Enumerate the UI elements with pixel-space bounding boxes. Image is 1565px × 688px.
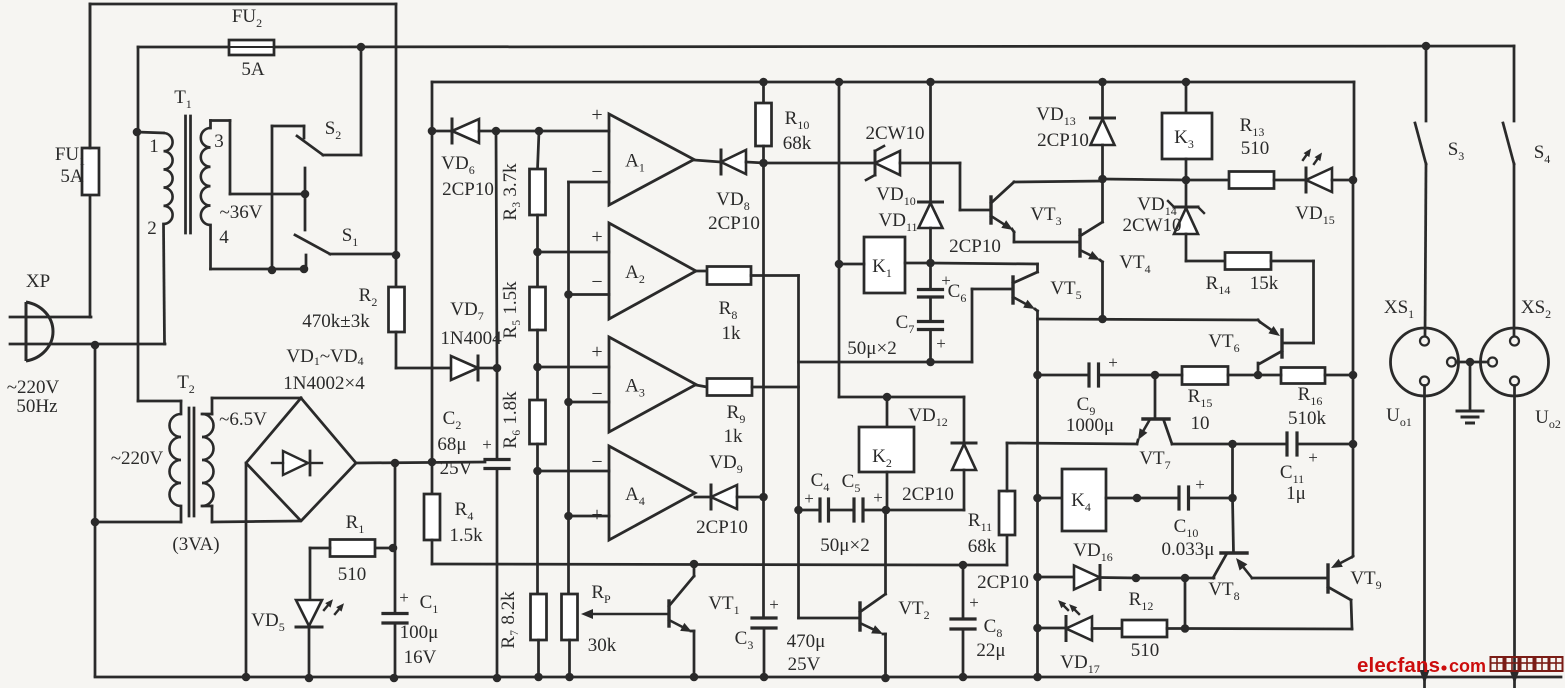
svg-text:−: − (591, 271, 602, 293)
capacitor C1 (383, 548, 407, 678)
plug XP (10, 302, 165, 361)
transformer T1 primary winding (1-2) (137, 132, 173, 344)
svg-text:+: + (804, 489, 814, 508)
label C6C7 50ux2 (847, 338, 896, 359)
watermark chinese characters (1490, 656, 1563, 671)
wire bridge negative to rail (245, 463, 248, 677)
label VD7 1N4004 (440, 299, 502, 349)
wire comparator bottom rail (432, 540, 963, 565)
label T2 (177, 372, 195, 396)
svg-text:~6.5V: ~6.5V (219, 409, 267, 430)
node K4-C10 junction (1133, 494, 1142, 503)
relay K4 (1038, 469, 1107, 531)
label FU1 5A (55, 144, 85, 187)
node K2 top junction (883, 393, 892, 402)
node VD17 left junction (1033, 624, 1042, 633)
diode VD6 (432, 119, 496, 143)
node C3 rail junction (760, 673, 769, 682)
svg-text:com: com (1449, 656, 1486, 676)
wire R15-R16 (1228, 374, 1258, 377)
svg-text:+: + (1308, 448, 1318, 467)
label VD12 2CP10 (902, 484, 954, 505)
label R7 8.2k (498, 591, 519, 649)
svg-text:2CP10: 2CP10 (708, 213, 760, 234)
transistor VT5 (931, 263, 1038, 375)
svg-text:68k: 68k (783, 133, 812, 154)
svg-text:~220V: ~220V (7, 377, 60, 398)
wire right bus x1353 (1353, 82, 1354, 556)
node R11-C8 junction (959, 561, 968, 570)
svg-text:2CP10: 2CP10 (949, 236, 1001, 257)
transformer T2 secondary winding (202, 398, 301, 522)
wire XS2 output down (1510, 386, 1520, 688)
node C2 rail junction (493, 674, 502, 683)
svg-text:+: + (482, 435, 492, 454)
wire to VT9 collector (1185, 627, 1352, 630)
diode VD8 (721, 150, 764, 174)
node bridge-VD6line junction (428, 458, 437, 467)
node VT2 emitter rail junction (881, 674, 890, 683)
svg-text:elecfans: elecfans (1357, 654, 1440, 677)
wire FU2 to T1 (137, 47, 140, 132)
op-amp A4 (591, 446, 695, 540)
relay K1 (839, 237, 931, 293)
node VT8 base mid junction (1228, 494, 1237, 503)
label R16 510k (1288, 384, 1327, 429)
label VD12 (908, 405, 947, 429)
wire VD6 vertical (431, 82, 434, 494)
transistor VT8 (1213, 553, 1328, 578)
node R5-R6 junction (533, 363, 542, 372)
node VD7 output junction (493, 364, 502, 373)
wire A1 plus input (496, 130, 609, 133)
label C10 0.033u (1162, 475, 1215, 560)
wire K4 right (1106, 497, 1137, 500)
label VD5 (251, 610, 284, 634)
label 2CW10 (865, 123, 924, 144)
wire emitter bus y319 (1038, 319, 1259, 320)
svg-text:1N4004: 1N4004 (440, 328, 502, 349)
label R12 510 (1129, 589, 1160, 661)
node bridge negative rail junction (242, 673, 251, 682)
label VD9 2CP10 (696, 452, 748, 538)
diode VD7 (432, 356, 497, 380)
capacitor C10 (1137, 487, 1233, 509)
node R16 right junction (1349, 371, 1358, 380)
wire socket link (1456, 358, 1488, 367)
label C9 1000u (1066, 353, 1118, 436)
wire to VT8 (1185, 577, 1214, 580)
label R5 1.5k (500, 281, 521, 339)
capacitor C2 (485, 368, 509, 678)
label R2 470k±3k (302, 285, 377, 332)
svg-text:~220V: ~220V (111, 448, 164, 469)
svg-text:+: + (591, 226, 602, 248)
node VT4 emitter junction (1098, 315, 1107, 324)
resistor R11 (963, 443, 1015, 565)
resistor R3 (530, 131, 546, 287)
svg-text:+: + (591, 504, 602, 526)
LED VD5 (296, 599, 344, 678)
wire A2 minus input (569, 293, 610, 296)
label VD11 2CP10 (949, 236, 1001, 257)
label VT1 (708, 593, 739, 617)
node VT1 emitter rail junction (690, 673, 699, 682)
svg-text:5A: 5A (60, 166, 84, 187)
transistor VT2 (799, 510, 886, 678)
label R4 1.5k (449, 499, 483, 546)
wire A-output to VT5 base (799, 289, 1014, 362)
label R15 10 (1188, 386, 1213, 434)
svg-text:(3VA): (3VA) (172, 534, 219, 555)
wire R14 to VT6 base (1271, 261, 1314, 343)
svg-text:25V: 25V (440, 458, 473, 479)
wire T1 junction down to mains node (137, 132, 140, 344)
svg-text:1μ: 1μ (1286, 483, 1306, 504)
resistor R4 (424, 494, 440, 540)
label VT2 (898, 598, 929, 622)
label XP (26, 271, 50, 292)
label R8 1k (719, 298, 741, 344)
node A2 minus junction (564, 290, 573, 299)
wire C2 vertical upper (496, 131, 497, 368)
wire K2 top lead (886, 397, 889, 427)
svg-text:510: 510 (1131, 640, 1160, 661)
resistor R13 (1229, 172, 1274, 189)
node C7 bottom junction (926, 358, 935, 367)
node VD5 rail junction (305, 674, 314, 683)
label FU2 5A (232, 6, 265, 80)
node K1 left junction (835, 260, 844, 269)
resistor R6 (530, 400, 546, 594)
node C11 right junction (1349, 440, 1358, 449)
node S3 top junction (1422, 42, 1431, 51)
wire C9-R15 (1155, 374, 1182, 377)
svg-text:1N4002×4: 1N4002×4 (283, 373, 365, 394)
wire K1 left vertical upper (838, 82, 841, 264)
wire S2 left vertical (271, 126, 274, 270)
node S1-R2 junction (392, 251, 401, 260)
label VT6 (1208, 331, 1239, 355)
switch S2 (272, 47, 361, 155)
node VD9-R10line junction (759, 493, 768, 502)
svg-text:+: + (936, 334, 946, 353)
label C8 22u (969, 593, 1005, 661)
node T1 tap junction (301, 190, 310, 199)
label C1 100u 16V (399, 588, 438, 668)
wire R2 feed vertical (395, 4, 398, 255)
node RP rail junction (565, 673, 574, 682)
svg-text:50μ×2: 50μ×2 (820, 535, 869, 556)
resistor R7 (531, 594, 547, 677)
label R6 1.8k (500, 391, 521, 449)
svg-text:VD1~VD4: VD1~VD4 (286, 346, 363, 368)
label Uo2 (1535, 407, 1561, 431)
wire bottom ground rail (95, 345, 1561, 677)
svg-text:30k: 30k (588, 635, 617, 656)
diode VD9 (711, 485, 764, 509)
svg-text:2CP10: 2CP10 (977, 572, 1029, 593)
svg-text:100μ: 100μ (400, 622, 439, 643)
label VD16 (1073, 540, 1112, 564)
label Uo1 (1386, 405, 1412, 429)
label winding 4 (219, 227, 229, 248)
svg-text:2: 2 (147, 218, 157, 239)
node K2-VD12 bottom junction (882, 506, 891, 515)
svg-text:1k: 1k (722, 323, 742, 344)
label R13 510 (1240, 115, 1270, 159)
svg-text:1: 1 (149, 136, 159, 157)
svg-text:68μ: 68μ (437, 434, 466, 455)
wire XS1 output down (1420, 386, 1430, 688)
capacitor C6 (919, 263, 943, 297)
switch S1 (295, 168, 396, 269)
node K4 left junction (1033, 494, 1042, 503)
node T1 bottom junctions (268, 265, 309, 275)
wire R10 line down (762, 163, 765, 497)
svg-text:470μ: 470μ (787, 631, 826, 652)
labels VD10 VD11 (876, 184, 917, 234)
resistor R5 (530, 287, 546, 400)
wire to R1 (375, 463, 397, 552)
svg-text:470k±3k: 470k±3k (302, 311, 370, 332)
bridge rectifier VD1-VD4 (246, 398, 356, 521)
label C7 (896, 312, 946, 353)
wire A1 output (694, 160, 721, 162)
wire inner top rail (432, 81, 1354, 84)
wire K2 bottom lead (886, 472, 889, 510)
svg-text:2CP10: 2CP10 (902, 484, 954, 505)
node VD8-R10 junction (759, 159, 768, 168)
node VT8 base top junction (1228, 440, 1237, 449)
resistor R1 (330, 540, 375, 557)
label ~6.5V (219, 409, 267, 430)
svg-text:R₆ 1.8k: R₆ 1.8k (500, 391, 521, 449)
node C8 rail junction (959, 673, 968, 682)
relay K3 (1162, 82, 1212, 180)
transformer T1 secondary winding (3-4) (201, 121, 306, 270)
node VD6 left junction (428, 127, 437, 136)
svg-text:25V: 25V (788, 654, 821, 675)
capacitor C8 (951, 565, 975, 677)
label (3VA) (172, 534, 219, 555)
ground (1457, 362, 1483, 423)
wire VD16-R12 link (1184, 578, 1187, 629)
transistor VT1 (669, 564, 694, 677)
node VD16 left junction (1033, 573, 1042, 582)
wire R16 right (1325, 374, 1353, 377)
label VD17 (1060, 652, 1099, 676)
label winding 2 (147, 218, 157, 239)
capacitor C3 (752, 618, 776, 677)
svg-text:50Hz: 50Hz (16, 396, 57, 417)
label VD1~VD4 (286, 346, 363, 368)
resistor R12 (1122, 620, 1167, 637)
label C2 68u 25V (437, 408, 491, 479)
svg-text:5A: 5A (241, 59, 265, 80)
wire R8 common vertical (797, 276, 800, 619)
wire VT4 collector feed (1101, 179, 1104, 222)
svg-text:+: + (969, 593, 979, 612)
node T2 primary bottom junction (91, 518, 100, 527)
op-amp A1 (591, 104, 694, 205)
svg-text:+: + (873, 488, 883, 507)
svg-text:−: − (591, 161, 602, 183)
node VT7 base junction (1151, 371, 1160, 380)
svg-text:XP: XP (26, 271, 50, 292)
capacitor C11 (1233, 433, 1354, 455)
svg-text:510: 510 (338, 564, 367, 585)
label C4C5 50ux2 (820, 535, 869, 556)
svg-text:2CP10: 2CP10 (1037, 130, 1089, 151)
node R3-R5 junction (533, 248, 542, 257)
label C11 1u (1280, 448, 1318, 504)
node R12-VT9 junction (1181, 624, 1190, 633)
op-amp A3 (591, 337, 696, 432)
svg-text:R₇ 8.2k: R₇ 8.2k (498, 591, 519, 649)
label S3 (1448, 139, 1465, 163)
node C9 left junction (1033, 371, 1042, 380)
svg-text:+: + (1195, 475, 1205, 494)
resistor R16 (1281, 368, 1325, 384)
node R15-R16 junction (1254, 371, 1263, 380)
svg-text:2CW10: 2CW10 (1122, 215, 1181, 236)
node VT1 collector junction (690, 560, 699, 569)
transformer T1 core (186, 116, 191, 233)
resistor R15 (1182, 367, 1228, 385)
transformer T2 core (189, 408, 194, 516)
label S1 (342, 225, 359, 249)
node A3 minus junction (564, 398, 573, 407)
svg-text:R₃ 3.7k: R₃ 3.7k (500, 163, 521, 221)
label R1 510 (338, 512, 367, 585)
svg-text:1.5k: 1.5k (449, 525, 483, 546)
relay K2 (859, 427, 914, 472)
label winding 1 (149, 136, 159, 157)
node C1 rail junction (390, 674, 399, 683)
node R10 top junction (759, 78, 768, 87)
label RP 30k (588, 582, 617, 656)
label ~220V 50Hz (7, 377, 60, 417)
svg-text:15k: 15k (1250, 273, 1279, 294)
resistor R8 (696, 267, 799, 285)
wire bridge positive output (356, 462, 485, 463)
wire A2 plus input (538, 251, 610, 254)
node S2 top junction (357, 43, 366, 52)
svg-text:+: + (399, 588, 409, 607)
resistor R14 (1225, 253, 1271, 270)
node R6-R7 junction (533, 467, 542, 476)
label winding 3 (214, 131, 224, 152)
node R7 rail junction (534, 673, 543, 682)
wire R11 to VT7 emitter (1007, 443, 1137, 444)
label R14 15k (1206, 273, 1279, 297)
svg-text:22μ: 22μ (976, 640, 1005, 661)
wire K3 output (1103, 179, 1230, 180)
svg-text:~36V: ~36V (219, 202, 262, 223)
wire C3 line upper (762, 497, 765, 617)
wire FU2 rail (138, 46, 1514, 47)
node A4 plus junction (564, 512, 573, 521)
labels C4 C5 (804, 470, 883, 508)
label ~220V primary (111, 448, 164, 469)
wire top-left loop (90, 4, 396, 148)
node K3 top junction (1182, 78, 1191, 87)
svg-text:0.033μ: 0.033μ (1162, 539, 1215, 560)
node K1 line top junction (835, 78, 844, 87)
label VT3 (1030, 204, 1061, 228)
label VT7 (1139, 448, 1170, 472)
resistor R2 (389, 255, 433, 368)
resistor R10 (756, 82, 772, 163)
label C3 470u 25V (735, 595, 826, 675)
node XP bottom prong junction (91, 341, 100, 350)
label VT5 (1050, 278, 1081, 302)
label T1 (174, 87, 192, 111)
wire K4 left vertical (1036, 375, 1039, 677)
wire A4 output (695, 496, 711, 499)
label 2CP10 mid (977, 572, 1029, 593)
transistor VT4 (1080, 222, 1103, 319)
label S4 (1534, 142, 1551, 166)
label VD8 2CP10 (708, 189, 760, 234)
label VT8 (1208, 579, 1239, 603)
svg-text:+: + (591, 341, 602, 363)
diode VD13 (1091, 82, 1115, 179)
label XS1 (1384, 297, 1414, 321)
wire feedback vertical (569, 182, 610, 594)
LED VD17 (1038, 600, 1123, 640)
wire A4 minus input (538, 470, 610, 473)
switch S4 (1503, 46, 1514, 336)
label S2 (325, 118, 342, 142)
node K3 bottom junction (1182, 176, 1191, 185)
zener diode VD10 2CW10 (764, 146, 992, 210)
wire VD16 to bus (1136, 577, 1185, 580)
node C4 left junction (794, 506, 803, 515)
wire to R16 (1258, 374, 1281, 377)
wire R1 to VD5 (310, 548, 330, 600)
diode VD12 (886, 397, 976, 510)
label R3 3.7k (500, 163, 521, 221)
capacitor C9 (1038, 364, 1156, 386)
svg-text:+: + (769, 595, 779, 614)
switch S3 (1415, 46, 1426, 336)
svg-text:+: + (1108, 353, 1118, 372)
label VD14 2CW10 (1122, 194, 1181, 236)
wire A3 plus input (538, 366, 610, 369)
wiper RP arrow (581, 609, 668, 619)
wire VT8 base vertical (1233, 444, 1234, 553)
wire R12 right (1167, 627, 1185, 630)
node T1 primary top junction (133, 128, 142, 137)
node K4 line rail junction (1033, 673, 1042, 682)
svg-text:510: 510 (1241, 138, 1270, 159)
label R11 68k (968, 510, 997, 557)
wire K1 to K2 top (839, 264, 964, 397)
label ~36V (219, 202, 262, 223)
node VD16 right junction (1132, 574, 1141, 583)
socket XS2 (1481, 328, 1549, 396)
transistor VT6 (1258, 320, 1314, 375)
node K1 right junction (926, 259, 935, 268)
svg-text:510k: 510k (1288, 408, 1327, 429)
transformer T2 primary winding (95, 344, 181, 522)
wire A3 minus input (569, 401, 610, 404)
label XS2 (1521, 297, 1551, 321)
capacitor C5 (829, 499, 887, 521)
svg-text:+: + (591, 104, 602, 126)
